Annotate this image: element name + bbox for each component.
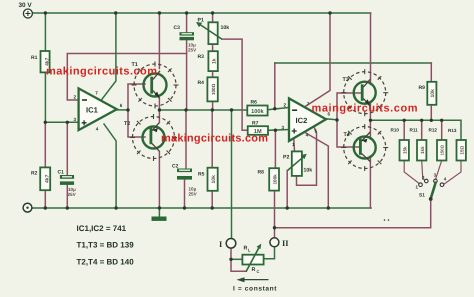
wire R1 drop from rail [44,13,46,51]
svg-text:7: 7 [307,101,310,106]
wire R10 to contact 1 [404,161,420,185]
svg-text:R: R [244,246,248,252]
wire switch common [275,199,431,228]
resistor R12 [429,128,447,161]
svg-text:P2: P2 [283,155,289,161]
wire emitter node line to R6 [159,109,247,111]
svg-text:maingcircuits.com: maingcircuits.com [312,102,418,114]
svg-text:15k: 15k [402,146,407,154]
node 0V terminal [23,203,32,212]
node 30V terminal [23,9,32,18]
wire R5 top from node line [211,110,213,168]
resistor R2 [31,167,51,190]
svg-text:T2,T4 = BD 140: T2,T4 = BD 140 [77,258,135,267]
wire R11 top stub [421,120,423,140]
svg-text:C3: C3 [174,25,181,31]
wire R13 to contact 4 [444,161,462,185]
wire IC1 pin4 to rail [104,124,116,208]
op-amp IC2 [282,98,331,147]
transistor T1 [132,62,179,109]
svg-text:T2: T2 [124,121,130,127]
transistor T4 [341,124,388,171]
transistor T2 [124,114,177,161]
wire node line down to C2 [185,110,187,169]
svg-text:100k: 100k [272,174,277,185]
wire C3 top from rail [186,13,188,32]
wire R5 bottom to rail [211,191,213,208]
resistor R3 [198,51,218,71]
wire IC1 pin7 to rail [101,13,116,101]
svg-text:25V: 25V [188,48,197,53]
wire R3 to R4 [212,71,214,77]
wire R12 top stub [441,120,443,140]
wire T3 emitter to sense rail [369,102,371,121]
wire terminal II to load [264,247,275,259]
svg-text:2: 2 [74,95,77,100]
svg-text:II: II [282,239,289,248]
wire feedback top horizontal to R9 [275,62,432,64]
resistor R9 [419,82,437,105]
potentiometer P1 [196,18,229,45]
wire sense rail to R13 [370,120,461,140]
svg-text:6: 6 [120,103,123,108]
svg-text:R10: R10 [391,128,400,133]
wire IC2 pin5 to P2 bottom [297,128,317,186]
svg-text:R5: R5 [198,172,205,178]
resistor R6 [247,100,267,116]
svg-text:15Ω: 15Ω [459,145,464,154]
wire R4 bottom to node line [212,101,214,110]
resistor R11 [410,128,427,161]
wire IC2 pin1 to P2 top [293,139,296,151]
potentiometer P2 [283,151,312,176]
wire R2 bottom to rail [44,190,46,208]
svg-text:4: 4 [306,132,309,137]
resistor R4 [198,77,218,101]
wire terminal I to load [231,248,246,271]
wire T1 T2 base vertical [128,84,145,137]
svg-text:25V: 25V [68,192,77,197]
resistor R10 [391,128,409,161]
wire IC2 pin7 to rail [306,13,331,106]
svg-text:P1: P1 [198,18,204,24]
svg-text:C: C [257,269,260,274]
svg-text:IC2: IC2 [296,116,308,125]
svg-text:5: 5 [315,128,318,133]
svg-text:IC1: IC1 [86,106,99,115]
wire T3 collector from rail corner [370,13,372,85]
wire R8 bottom to terminal II [274,191,276,238]
resistor R5 [198,168,218,191]
wire T1 emitter to node [158,99,160,110]
wire R12 to contact 3 [436,161,442,180]
svg-text:T3: T3 [343,77,349,83]
switch S1 [416,173,447,201]
svg-text:I: I [219,240,222,249]
wire IC1 pin6 output [117,109,128,111]
svg-text:R9: R9 [419,85,426,91]
wire P2 wiper to rail [286,171,288,208]
svg-text:C2: C2 [172,164,179,170]
wire R9 top [430,63,432,82]
wire T2 collector to rail [158,152,160,209]
svg-text:R6: R6 [251,100,258,106]
wire IC2 pin6 output [326,119,337,120]
wire T2 emitter to node [158,110,160,123]
resistor R7 [248,121,268,135]
svg-text:R7: R7 [252,121,259,127]
svg-text:R: R [252,267,256,273]
svg-text:10k: 10k [430,89,436,98]
svg-text:10k: 10k [304,168,313,174]
wire R8 drop from pin3 wire [274,130,276,168]
wire node to terminal I [231,110,233,239]
svg-text:10k: 10k [211,175,217,184]
wire top supply rail [33,12,371,14]
svg-text:IC1,IC2 = 741: IC1,IC2 = 741 [77,224,127,233]
svg-text:makingcircuits.com: makingcircuits.com [46,65,157,77]
svg-text:T1,T3 = BD 139: T1,T3 = BD 139 [77,241,135,250]
wire R10 top stub [403,120,405,140]
wire R2 top [44,122,46,167]
svg-text:30 V: 30 V [19,2,33,9]
wire IC1 pin3 horizontal [45,121,79,123]
svg-text:100Ω: 100Ω [211,83,216,95]
label I constant arrow [233,277,277,292]
wire C2 bottom to rail [184,180,186,208]
svg-text:1: 1 [292,142,295,147]
svg-text:4: 4 [96,126,99,131]
wire 0V bottom rail [32,207,371,209]
wire IC2 pin4 to rail [305,133,328,209]
capacitor C1 [58,170,77,198]
wire R11 to contact 2 [422,161,426,181]
svg-text:10k: 10k [221,25,230,31]
svg-text:150Ω: 150Ω [440,144,445,155]
svg-text:R4: R4 [198,80,205,86]
svg-text:R2: R2 [31,171,38,177]
resistor R8 [258,168,280,190]
resistor R1 [31,51,51,72]
svg-text:3: 3 [282,125,285,130]
svg-text:R3: R3 [198,54,205,60]
terminal II [270,238,289,248]
svg-text:T4: T4 [344,132,350,138]
resistor R13 [448,128,466,161]
svg-text:R1: R1 [31,55,38,61]
transistor T3 [341,69,388,116]
wire R9 bottom to sense rail [430,105,432,121]
svg-text:R12: R12 [429,128,438,133]
wire P1 top from rail [212,13,214,22]
svg-text:3: 3 [74,117,77,122]
capacitor C2 [172,164,198,197]
svg-text:R8: R8 [258,170,265,176]
svg-text:4k7: 4k7 [45,174,51,183]
wire C1 drop from pin3 node [66,122,68,175]
wire T1 collector to rail [158,13,160,69]
wire T3 T4 base vertical [337,93,361,147]
wire T4 emitter to rail end [369,156,371,208]
svg-text:I = constant: I = constant [233,285,277,292]
ground [152,208,167,221]
svg-text:2: 2 [284,103,287,108]
terminal I [219,239,236,250]
svg-text:100k: 100k [251,108,264,115]
svg-text:R11: R11 [410,128,419,133]
op-amp IC1 [74,88,123,131]
wire R1 bottom to pin3 junction [44,72,46,122]
svg-text:25V: 25V [189,192,198,197]
wire R6 to IC2 pin2 [268,108,289,110]
wire pin2 node feedback riser [274,63,276,109]
svg-text:1k5: 1k5 [420,146,425,154]
load RL RC assembly [242,244,263,274]
capacitor C3 [174,25,198,53]
svg-text:S1: S1 [419,192,425,198]
wire IC1 pin2 feedback net [67,54,186,101]
svg-text:7: 7 [95,91,98,96]
svg-text:makingcircuits.com: makingcircuits.com [161,133,268,145]
svg-text:C1: C1 [58,170,65,176]
wire C3 bottom down to node line [186,40,188,110]
wire P1 to R3 [212,44,214,51]
svg-text:1k: 1k [211,58,217,64]
wire P1 wiper to R7 [222,39,248,130]
wire T4 collector [369,120,371,139]
wire C1 bottom to rail [66,185,68,208]
svg-text:R13: R13 [448,128,457,133]
wire R7 to IC2 pin3 [268,129,289,132]
